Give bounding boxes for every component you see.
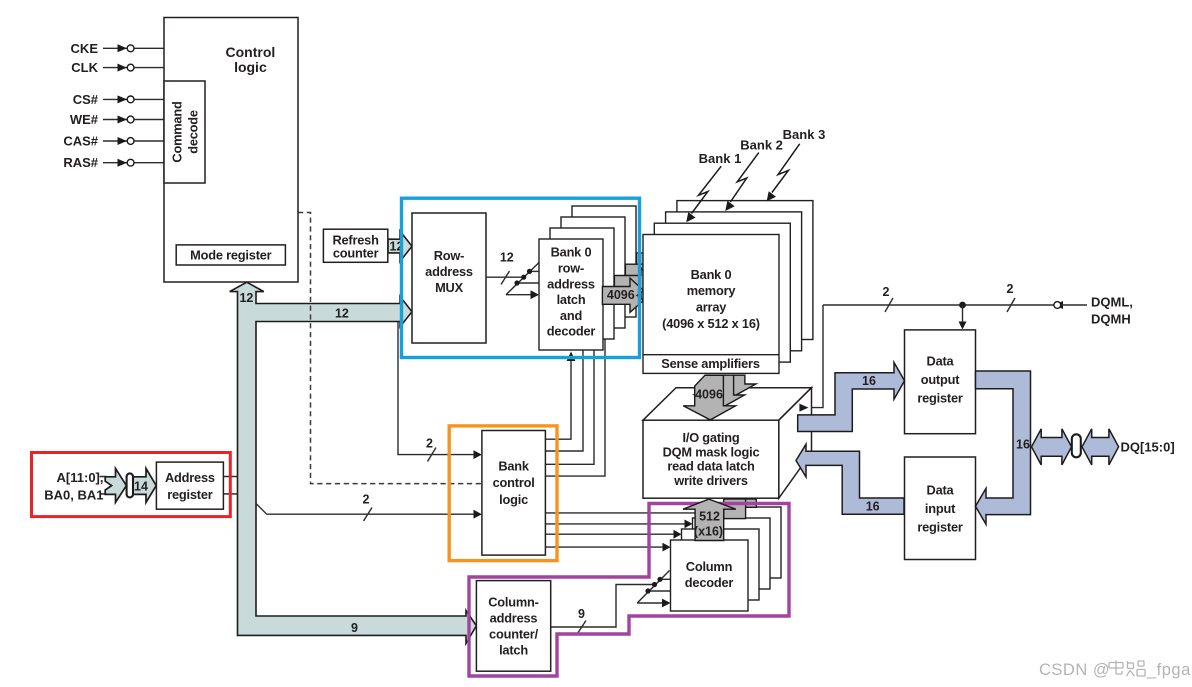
- box: Row-address MUX: [412, 213, 486, 343]
- box: Bank 0 memory array: [643, 235, 779, 374]
- svg-text:WE#: WE#: [70, 112, 99, 127]
- svg-text:write drivers: write drivers: [673, 473, 748, 488]
- box: Mode register: [176, 245, 285, 265]
- svg-text:address: address: [547, 276, 595, 291]
- svg-text:CS#: CS#: [73, 92, 99, 107]
- wire: column demux 9 from counter to column decoders: [551, 571, 671, 634]
- box: I/O gating 3D top face: [643, 388, 812, 421]
- box: I/O gating 3D right face: [779, 388, 812, 499]
- box: Control logic U1: [164, 18, 298, 283]
- wire: address register input stubs: [100, 477, 239, 494]
- bus arrow: 4096 sense to I/O bank2: [695, 375, 745, 409]
- wire: DQM 2-bit arrow into I/O gating: [799, 404, 808, 412]
- wire: CAS# input: [63, 134, 164, 149]
- svg-text:Data: Data: [927, 482, 955, 497]
- svg-text:(4096 x 512 x 16): (4096 x 512 x 16): [662, 316, 760, 331]
- svg-text:read data latch: read data latch: [667, 459, 755, 474]
- bus: teal address bus network: [230, 282, 477, 643]
- svg-text:counter/: counter/: [489, 627, 539, 642]
- svg-text:memory: memory: [687, 283, 737, 298]
- svg-text:9: 9: [578, 607, 585, 621]
- frame: blue row path group: [402, 198, 640, 357]
- bus: 16-bit DQ trunk C band: [976, 371, 1031, 524]
- svg-text:16: 16: [1016, 438, 1030, 452]
- watermark CSDN: [1039, 661, 1191, 680]
- svg-text:decode: decode: [186, 110, 201, 154]
- bus arrow: 4096 row lines bank2: [625, 256, 663, 290]
- bus arrow: 512 x16 column decoder to I/O: [683, 499, 736, 540]
- svg-text:Bank 3: Bank 3: [783, 127, 826, 142]
- svg-text:12: 12: [500, 251, 514, 265]
- svg-text:4096: 4096: [695, 387, 723, 401]
- box: bank row-address latch stack layer 2: [561, 217, 625, 328]
- wire: RAS# input: [63, 155, 164, 170]
- box: bank row-address latch stack layer 3: [572, 206, 636, 317]
- box: Command decode: [164, 81, 205, 183]
- wire: bank control to row decoders (4 lines): [545, 339, 605, 476]
- bus arrow: 4096 row lines bank1: [614, 268, 652, 302]
- svg-text:latch: latch: [557, 292, 586, 307]
- svg-text:Bank 0: Bank 0: [551, 245, 592, 260]
- bus arrow: 512 column lines bank1 shaft: [724, 499, 746, 519]
- bus arrow: 4096 row lines bank3: [636, 245, 674, 279]
- svg-text:CAS#: CAS#: [63, 134, 98, 149]
- svg-text:Address: Address: [165, 470, 215, 485]
- label Bank 1 with zigzag arrow: [686, 151, 741, 222]
- box: Bank control logic: [482, 431, 546, 556]
- svg-text:Column-: Column-: [488, 595, 539, 610]
- svg-text:CSDN @: CSDN @: [1039, 661, 1110, 679]
- wire: DQML DQMH net: [809, 282, 1133, 407]
- svg-text:control: control: [493, 475, 535, 490]
- svg-text:14: 14: [134, 479, 148, 493]
- wire: WE# input: [70, 112, 164, 127]
- svg-text:Column: Column: [686, 559, 733, 574]
- svg-text:register: register: [917, 391, 963, 406]
- svg-text:A[11:0],: A[11:0],: [57, 470, 104, 485]
- frame: red address input group: [32, 453, 231, 517]
- wire: CKE input: [71, 41, 164, 56]
- svg-text:decoder: decoder: [685, 575, 734, 590]
- bus arrow: 512 column lines bank2 shaft: [734, 499, 756, 507]
- svg-text:4096: 4096: [607, 288, 635, 302]
- svg-text:CKE: CKE: [71, 41, 99, 56]
- wire: 2-bit bank select lower: [256, 492, 482, 521]
- svg-text:Bank 2: Bank 2: [740, 138, 783, 153]
- svg-text:DQML,: DQML,: [1091, 295, 1133, 310]
- svg-text:12: 12: [239, 291, 253, 305]
- svg-text:input: input: [925, 501, 956, 516]
- box: Sense amplifiers: [643, 355, 779, 372]
- svg-text:I/O gating: I/O gating: [682, 430, 739, 445]
- svg-text:latch: latch: [499, 643, 528, 658]
- bus arrow: DQ bidirectional outer: [1082, 429, 1119, 465]
- svg-text:logic: logic: [499, 492, 528, 507]
- box: Address register: [156, 462, 223, 509]
- svg-text:RAS#: RAS#: [63, 155, 98, 170]
- svg-text:decoder: decoder: [547, 324, 596, 339]
- svg-text:_fpga: _fpga: [1146, 661, 1191, 679]
- svg-text:12: 12: [335, 306, 349, 320]
- svg-text:2: 2: [883, 285, 890, 299]
- wire: dashed mode path control logic to bank control: [298, 213, 481, 484]
- svg-text:address: address: [490, 611, 538, 626]
- svg-text:16: 16: [862, 374, 876, 388]
- svg-text:CLK: CLK: [71, 60, 98, 75]
- svg-text:(x16): (x16): [694, 524, 723, 538]
- svg-text:2: 2: [1007, 282, 1014, 296]
- bus arrow: 4096 sense to I/O bank3: [706, 375, 756, 398]
- wire: 2-bit bank select upper: [398, 322, 482, 462]
- svg-text:Data: Data: [927, 354, 955, 369]
- svg-text:DQM mask logic: DQM mask logic: [663, 444, 760, 459]
- svg-text:Row-: Row-: [434, 248, 464, 263]
- svg-text:logic: logic: [234, 59, 267, 75]
- svg-text:DQMH: DQMH: [1091, 312, 1131, 327]
- box: bank memory stack layer 3: [677, 201, 813, 340]
- box: Column decoder front: [671, 540, 749, 611]
- label Bank 3 with zigzag arrow: [767, 127, 826, 201]
- wire: row demux 12 from MUX to bank row latches: [486, 251, 539, 299]
- svg-text:9: 9: [351, 621, 358, 635]
- box: Column-address counter/latch: [476, 581, 550, 672]
- box: I/O gating DQM mask logic front face: [643, 420, 779, 498]
- bus: 16-bit write path data input register to I/O: [796, 444, 904, 514]
- svg-text:array: array: [696, 300, 727, 315]
- svg-text:address: address: [425, 264, 473, 279]
- wire: CS# input: [73, 92, 164, 107]
- wire: CLK input: [71, 60, 164, 75]
- svg-text:Bank 1: Bank 1: [699, 151, 742, 166]
- svg-text:DQ[15:0]: DQ[15:0]: [1121, 439, 1175, 454]
- svg-text:Control: Control: [226, 44, 276, 60]
- box: bank row-address latch stack layer 1: [550, 228, 614, 339]
- pad: DQ pin oval: [1072, 434, 1081, 457]
- box: Data output register: [905, 330, 976, 434]
- svg-text:row-: row-: [558, 261, 584, 276]
- bus: 16-bit read path I/O to data output register: [798, 363, 905, 432]
- svg-text:and: and: [560, 308, 582, 323]
- box: Data input register: [905, 457, 976, 560]
- bus: A[11:0] BA0 BA1 input arrow with 14: [105, 468, 156, 502]
- svg-text:Sense amplifiers: Sense amplifiers: [661, 356, 760, 371]
- svg-text:BA0, BA1: BA0, BA1: [44, 488, 103, 503]
- frame: orange bank control group: [449, 426, 557, 561]
- svg-text:Bank: Bank: [498, 459, 530, 474]
- svg-text:512: 512: [699, 510, 720, 524]
- wire: bank control to column decoders (4 lines): [545, 513, 700, 552]
- box: column decoder stack layer 1: [682, 529, 760, 600]
- svg-text:2: 2: [363, 492, 370, 506]
- svg-text:counter: counter: [333, 245, 379, 260]
- box: Bank 0 row-address latch and decoder: [539, 239, 603, 350]
- box: column decoder stack layer 2: [693, 518, 771, 589]
- arrowhead up into bank0 row decoder: [567, 352, 576, 362]
- svg-text:2: 2: [426, 437, 433, 451]
- bus arrow: DQ bidirectional inner: [1032, 429, 1072, 465]
- svg-text:16: 16: [866, 500, 880, 514]
- box: column decoder stack layer 3: [704, 507, 782, 578]
- svg-text:Command: Command: [170, 101, 185, 162]
- box: Refresh counter: [323, 229, 387, 262]
- svg-text:output: output: [921, 372, 961, 387]
- box: bank memory stack layer 2: [666, 212, 802, 351]
- svg-text:register: register: [167, 487, 213, 502]
- bus arrow: 4096 sense to I/O bank0: [683, 375, 735, 420]
- svg-text:Mode register: Mode register: [190, 248, 272, 263]
- label Bank 2 with zigzag arrow: [725, 138, 783, 212]
- bus arrow: 4096 row lines bank0: [602, 278, 643, 312]
- svg-text:MUX: MUX: [435, 280, 464, 295]
- svg-text:Bank 0: Bank 0: [691, 267, 732, 282]
- bus: refresh counter 12 bus: [388, 231, 412, 261]
- box: bank memory stack layer 1: [654, 223, 790, 362]
- svg-text:register: register: [917, 519, 963, 534]
- frame: purple column path group: [469, 504, 789, 677]
